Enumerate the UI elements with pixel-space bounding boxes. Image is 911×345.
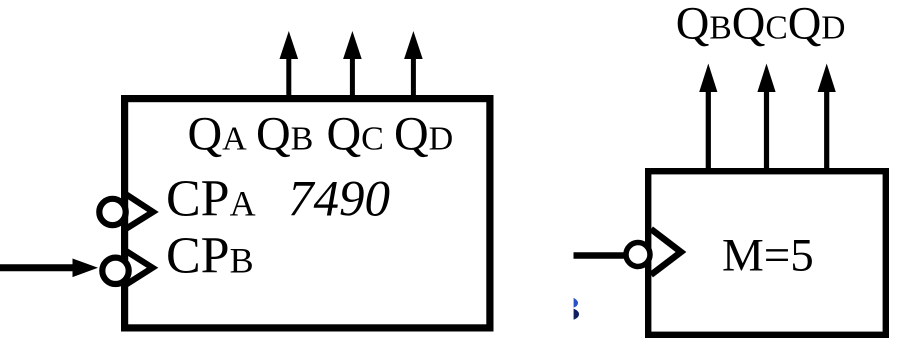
wire input to CPB with arrowhead bbox=[0, 259, 98, 278]
partial clipped letter B (cropped label, navy) bbox=[574, 298, 580, 320]
wire output QB arrow (U2) bbox=[699, 64, 717, 172]
IC U2 mod-5 counter body bbox=[648, 171, 886, 335]
svg-text:QC: QC bbox=[327, 108, 384, 161]
wire output QD arrow (U2) bbox=[818, 64, 836, 172]
clock bubble (U2 clock input) bbox=[626, 243, 650, 267]
wire output QC arrow (U1) bbox=[404, 31, 423, 98]
wire input to U2 clock bbox=[574, 252, 628, 259]
clock chevron CPA (U1) bbox=[127, 195, 154, 229]
svg-text:CPA: CPA bbox=[166, 171, 256, 228]
clock chevron (U2 clock input) bbox=[651, 229, 681, 275]
svg-text:QB: QB bbox=[256, 108, 313, 161]
pin label CPB (U1 clock input B) bbox=[166, 227, 254, 284]
wire output QA arrow (U1) bbox=[280, 31, 299, 98]
svg-text:QA: QA bbox=[188, 108, 248, 161]
IC U1 7490 decade counter body bbox=[125, 99, 490, 328]
value label M=5 bbox=[722, 229, 814, 281]
clock chevron CPB (U1) bbox=[127, 251, 153, 284]
wire output QB arrow (U1) bbox=[343, 31, 362, 98]
svg-text:QD: QD bbox=[394, 108, 453, 161]
label outputs QBQCQD (U2) bbox=[676, 0, 846, 49]
svg-text:7490: 7490 bbox=[288, 172, 390, 228]
clock bubble CPA (U1) bbox=[99, 199, 125, 225]
value label 7490 bbox=[288, 172, 390, 228]
svg-text:QBQCQD: QBQCQD bbox=[676, 0, 846, 49]
svg-text:M=5: M=5 bbox=[722, 229, 814, 281]
clock bubble CPB (U1) bbox=[102, 258, 128, 284]
pin label CPA (U1 clock input A) bbox=[166, 171, 256, 228]
svg-text:CPB: CPB bbox=[166, 227, 254, 284]
wire output QC arrow (U2) bbox=[757, 64, 775, 172]
label outputs QA QB QC QD (U1 pins) bbox=[188, 108, 454, 161]
